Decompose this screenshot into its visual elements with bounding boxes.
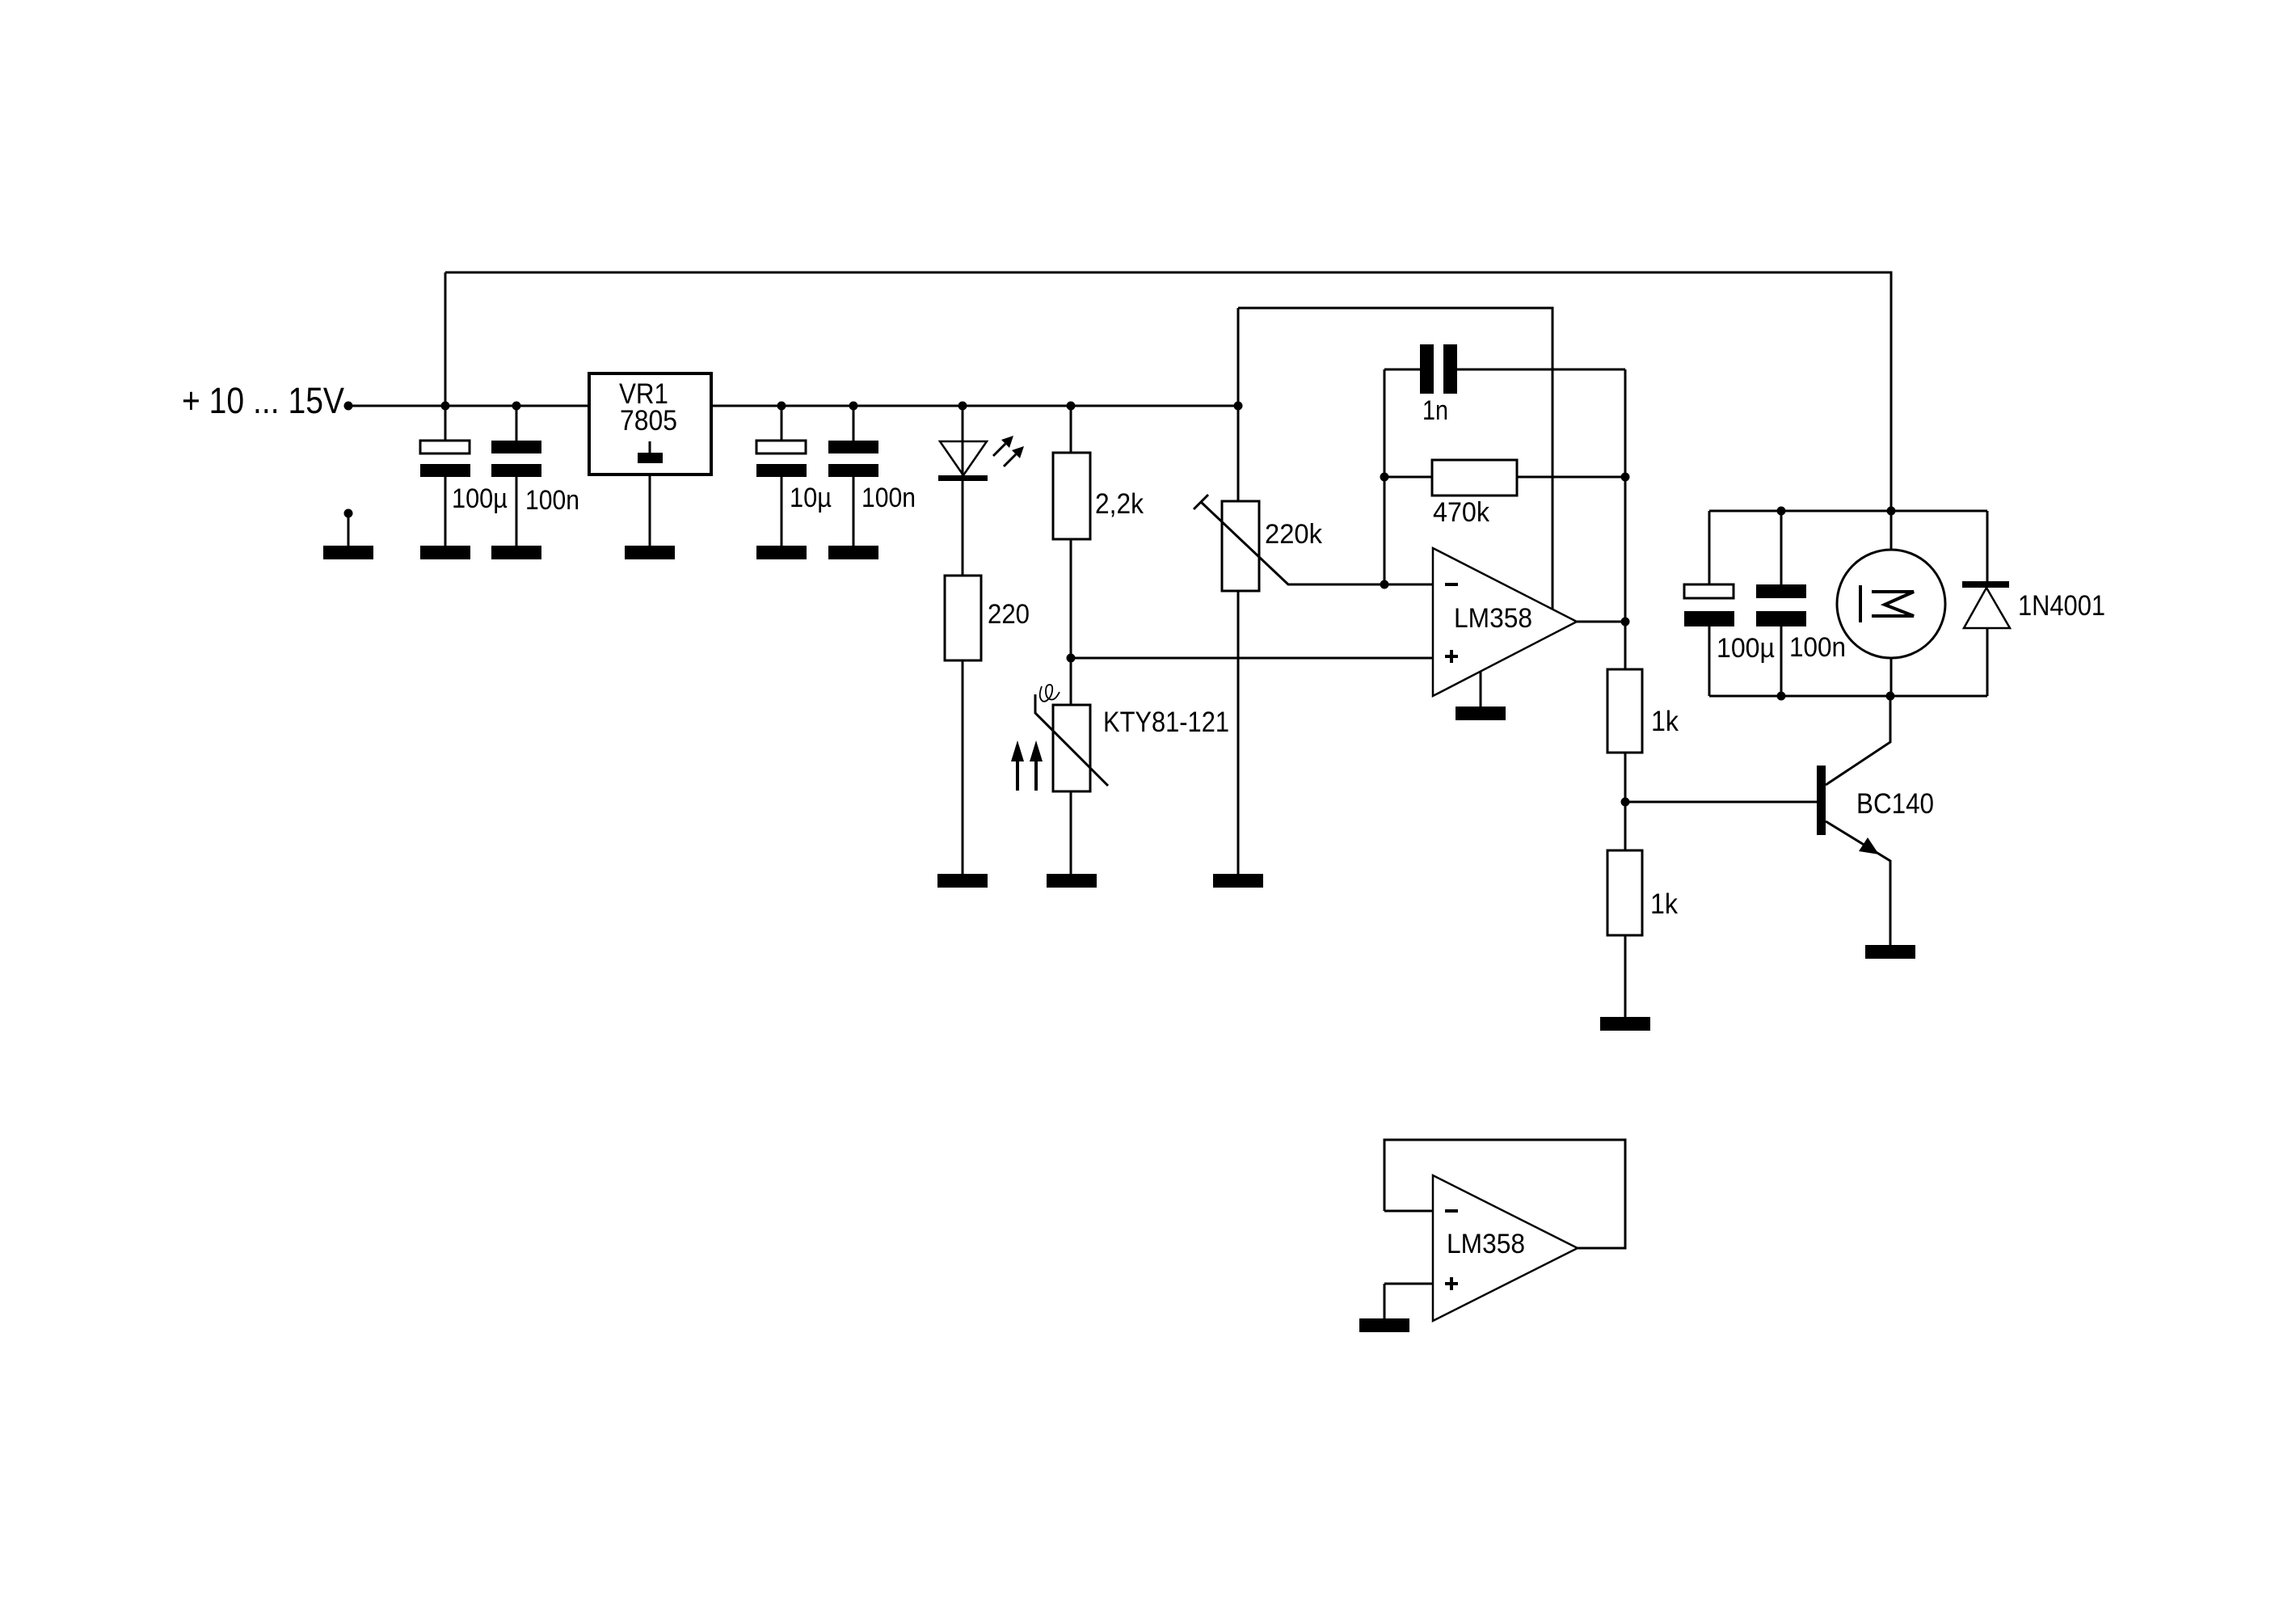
svg-text:1n: 1n xyxy=(1422,395,1448,426)
svg-text:100µ: 100µ xyxy=(1717,633,1775,664)
svg-text:220k: 220k xyxy=(1265,519,1323,550)
svg-text:KTY81-121: KTY81-121 xyxy=(1103,707,1229,738)
svg-text:BC140: BC140 xyxy=(1856,788,1934,820)
svg-text:100n: 100n xyxy=(525,485,579,516)
svg-text:1k: 1k xyxy=(1651,706,1679,737)
svg-text:2,2k: 2,2k xyxy=(1095,488,1144,520)
svg-text:470k: 470k xyxy=(1433,497,1490,528)
svg-text:1k: 1k xyxy=(1650,888,1678,920)
svg-text:10µ: 10µ xyxy=(790,483,832,513)
svg-text:+ 10 ... 15V: + 10 ... 15V xyxy=(182,380,344,421)
svg-text:100n: 100n xyxy=(862,483,916,513)
svg-text:100µ: 100µ xyxy=(452,483,508,514)
svg-text:LM358: LM358 xyxy=(1447,1229,1525,1259)
svg-text:LM358: LM358 xyxy=(1454,603,1532,634)
svg-text:100n: 100n xyxy=(1789,632,1846,663)
svg-text:220: 220 xyxy=(988,599,1030,630)
svg-text:7805: 7805 xyxy=(620,405,677,437)
svg-text:1N4001: 1N4001 xyxy=(2018,590,2105,622)
